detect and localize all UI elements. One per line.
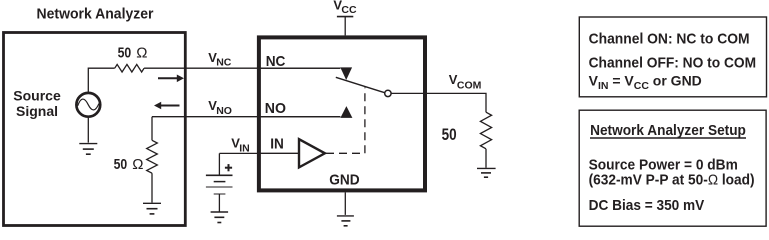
svg-text:Signal: Signal <box>16 103 58 119</box>
svg-text:CC: CC <box>341 4 357 16</box>
NC contact triangle <box>340 67 352 80</box>
VCC wire <box>344 17 346 36</box>
underline <box>590 137 746 139</box>
svg-text:NO: NO <box>265 100 287 117</box>
svg-text:(632-mV P-P at 50-Ω load): (632-mV P-P at 50-Ω load) <box>589 171 755 188</box>
wire corner down to R2 <box>151 117 153 141</box>
ground (battery) <box>218 194 220 212</box>
wire COM to load <box>391 93 486 112</box>
ground (IC) <box>337 215 354 217</box>
ground (source) <box>87 118 89 143</box>
resistor R3 50 load <box>480 112 491 149</box>
ground (load) <box>477 167 496 169</box>
wire IN pin <box>257 152 299 154</box>
wire VIN to IN pin <box>219 152 299 154</box>
svg-text:GND: GND <box>329 172 360 189</box>
arrow left (signal from NO) <box>161 105 180 107</box>
VCC supply bar <box>337 16 353 18</box>
network analyzer box <box>4 33 186 226</box>
svg-text:IN: IN <box>270 135 284 152</box>
resistor R1 50ohm horizontal <box>115 64 144 72</box>
svg-text:Ω: Ω <box>132 156 143 173</box>
resistor R2 50ohm vertical <box>147 140 158 173</box>
plus sign (battery polarity) <box>225 167 232 169</box>
svg-text:Network Analyzer: Network Analyzer <box>37 6 154 23</box>
svg-text:50: 50 <box>442 126 457 144</box>
COM pole circle <box>385 90 391 96</box>
wire resistor R1 to NC pin <box>144 67 340 69</box>
wire source to resistor R1 <box>88 68 114 92</box>
svg-text:NC: NC <box>216 57 232 69</box>
svg-text:Channel ON: NC to COM: Channel ON: NC to COM <box>589 30 750 47</box>
battery V1 plates <box>206 174 233 176</box>
NO contact triangle <box>340 106 352 118</box>
svg-text:Network Analyzer Setup: Network Analyzer Setup <box>590 122 746 139</box>
battery stub wire <box>218 153 220 175</box>
buffer driver <box>299 139 325 167</box>
svg-text:NC: NC <box>266 53 286 70</box>
svg-text:50: 50 <box>118 45 132 62</box>
arrow right (signal into NC) <box>158 77 178 79</box>
wire NC pin <box>261 67 340 69</box>
info box 2 <box>579 110 766 226</box>
svg-text:NO: NO <box>216 105 232 117</box>
svg-text:Channel OFF: NO to COM: Channel OFF: NO to COM <box>589 54 757 71</box>
wire NO pin <box>261 116 340 118</box>
svg-text:50: 50 <box>114 156 128 173</box>
svg-text:IN: IN <box>239 142 250 154</box>
source AC generator <box>76 93 100 117</box>
svg-text:COM: COM <box>457 80 482 92</box>
switch IC box U1 <box>259 37 425 190</box>
ground (R2) <box>151 173 153 202</box>
switch arm <box>336 77 385 93</box>
info box 1 <box>579 17 766 97</box>
dashed control link <box>326 88 365 154</box>
svg-text:Ω: Ω <box>136 45 147 62</box>
svg-text:Source: Source <box>13 88 61 104</box>
svg-text:DC Bias = 350 mV: DC Bias = 350 mV <box>589 197 705 214</box>
wire R3 to ground <box>485 149 487 168</box>
wire GND pin <box>344 192 346 215</box>
wire NO pin run <box>152 116 340 118</box>
